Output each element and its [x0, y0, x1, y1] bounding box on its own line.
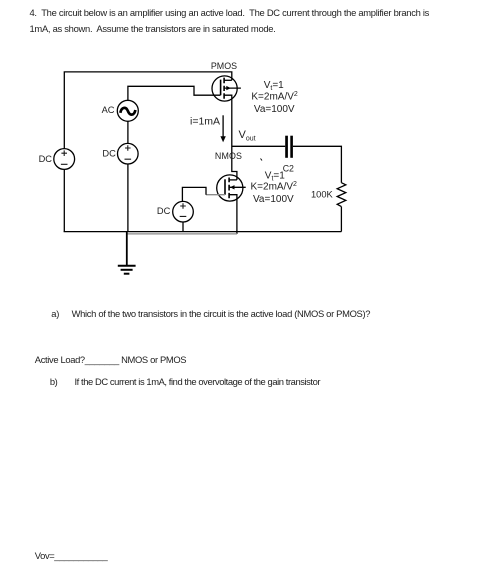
- svg-text:NMOS: NMOS: [215, 151, 242, 161]
- svg-text:Vt=1: Vt=1: [264, 80, 284, 92]
- svg-text:K=2mA/V2: K=2mA/V2: [251, 181, 298, 193]
- svg-text:Vout: Vout: [239, 129, 256, 142]
- svg-text:K=2mA/V2: K=2mA/V2: [251, 91, 298, 103]
- svg-text:Va=100V: Va=100V: [253, 194, 294, 205]
- svg-text:DC: DC: [102, 149, 116, 159]
- svg-text:AC: AC: [102, 105, 115, 115]
- svg-text:DC: DC: [39, 154, 53, 164]
- svg-text:i=1mA: i=1mA: [190, 116, 220, 128]
- svg-text:100K: 100K: [311, 189, 334, 199]
- svg-text:PMOS: PMOS: [211, 61, 237, 71]
- svg-text:Va=100V: Va=100V: [254, 104, 295, 115]
- svg-text:DC: DC: [157, 206, 171, 216]
